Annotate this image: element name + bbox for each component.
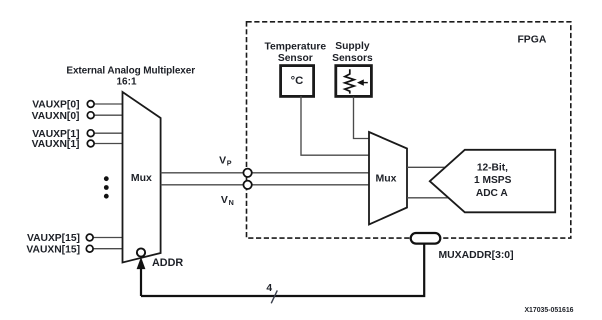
node VAUXP[1] terminal [87, 130, 94, 137]
svg-text:Sensor: Sensor [278, 53, 313, 64]
wire VAUXP[1] stub [94, 132, 123, 134]
svg-text:V: V [219, 155, 226, 167]
svg-text:16:1: 16:1 [116, 77, 136, 88]
MUXADDR port pill [411, 233, 441, 244]
svg-text:VAUXN[0]: VAUXN[0] [32, 111, 80, 122]
ADC A block [430, 150, 555, 213]
svg-text:ADDR: ADDR [152, 257, 183, 269]
svg-text:MUXADDR[3:0]: MUXADDR[3:0] [439, 250, 514, 261]
bus width slash [271, 290, 277, 303]
svg-text:V: V [221, 194, 228, 206]
wire MUXADDR bus [141, 243, 424, 296]
svg-text:External Analog Multiplexer: External Analog Multiplexer [66, 65, 195, 76]
node ADDR pin [137, 248, 145, 256]
svg-text:1 MSPS: 1 MSPS [474, 175, 512, 186]
input ellipsis dots [104, 176, 109, 198]
wire internal mux to ADC lower [407, 197, 450, 199]
svg-text:N: N [229, 198, 234, 207]
temperature sensor box [281, 66, 314, 97]
label V_N [221, 194, 234, 207]
node VAUXN[15] terminal [86, 245, 93, 252]
wire temperature sensor to internal mux [301, 96, 369, 155]
wire VAUXN[0] stub [94, 114, 123, 116]
wire V_N [161, 184, 369, 186]
multiplexer U2 internal analog mux [369, 132, 407, 225]
supply sensor resistor symbol [345, 69, 368, 93]
svg-text:Temperature: Temperature [264, 41, 326, 52]
svg-text:12-Bit,: 12-Bit, [477, 162, 508, 173]
svg-text:VAUXN[1]: VAUXN[1] [32, 139, 80, 150]
svg-text:VAUXN[15]: VAUXN[15] [26, 244, 80, 255]
label V_P [219, 155, 232, 168]
wire VAUXN[15] stub [93, 248, 123, 250]
node VAUXP[15] terminal [86, 234, 93, 241]
node V_P terminal [243, 169, 251, 177]
ADDR arrow [137, 257, 146, 296]
wire internal mux to ADC upper [407, 166, 446, 168]
svg-text:4: 4 [266, 283, 272, 294]
label External Analog Multiplexer 16:1 [66, 65, 195, 87]
label Supply Sensors [332, 41, 373, 64]
svg-text:Mux: Mux [131, 172, 152, 184]
svg-text:Sensors: Sensors [332, 53, 373, 64]
svg-text:°C: °C [291, 75, 304, 87]
svg-text:VAUXP[0]: VAUXP[0] [32, 100, 79, 111]
svg-text:ADC A: ADC A [476, 188, 509, 199]
node VAUXN[1] terminal [87, 140, 94, 147]
supply sensors box [336, 66, 372, 97]
svg-text:VAUXP[15]: VAUXP[15] [27, 233, 80, 244]
svg-text:Mux: Mux [376, 172, 397, 184]
wire supply sensors to internal mux [354, 97, 370, 139]
svg-text:P: P [227, 159, 232, 168]
svg-text:Supply: Supply [335, 41, 370, 52]
FPGA boundary box [247, 22, 571, 238]
multiplexer U1 external 16:1 mux [123, 92, 161, 263]
wire V_P [161, 172, 369, 174]
node V_N terminal [243, 181, 251, 189]
svg-text:FPGA: FPGA [517, 34, 546, 45]
wire VAUXN[1] stub [94, 143, 123, 145]
node VAUXN[0] terminal [87, 112, 94, 119]
label Temperature Sensor [264, 41, 326, 64]
wire VAUXP[0] stub [94, 103, 123, 105]
node VAUXP[0] terminal [87, 101, 94, 108]
svg-text:X17035-051616: X17035-051616 [524, 307, 573, 314]
wire VAUXP[15] stub [93, 237, 123, 239]
